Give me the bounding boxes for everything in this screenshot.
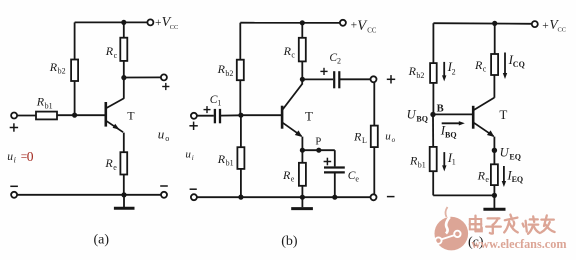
label Re (b) xyxy=(282,168,295,184)
wire: RL to bottom terminal (b) xyxy=(373,147,375,194)
label caption (c) xyxy=(468,235,484,250)
transistor T (c) xyxy=(473,98,494,137)
label T (a) xyxy=(127,109,135,123)
label P (b) xyxy=(315,137,321,148)
svg-text:b2: b2 xyxy=(225,69,233,78)
wire: Rb1 to transistor base (a) xyxy=(57,114,105,116)
wire: Rb2 branch upper (a) xyxy=(74,22,76,59)
label - at bottom-left terminal (a) xyxy=(10,185,18,187)
svg-text:e: e xyxy=(355,174,359,183)
label caption (a) xyxy=(94,232,110,247)
svg-text:R: R xyxy=(408,64,417,78)
label Rb1 (b) xyxy=(217,152,234,168)
wire: C2 to output terminal (b) xyxy=(339,78,370,80)
label - at bottom-right terminal (a) xyxy=(160,185,168,187)
label uo (b) xyxy=(385,131,395,144)
node P (b) xyxy=(316,148,321,153)
node: +Vcc terminal (c) xyxy=(532,21,538,27)
svg-text:b2: b2 xyxy=(416,71,424,80)
current arrow I2 (c) xyxy=(442,62,446,82)
svg-text:u: u xyxy=(385,131,391,143)
current arrow IEQ (c) xyxy=(502,166,506,187)
label B (c) xyxy=(437,103,444,114)
svg-text:www.elecfans.com: www.elecfans.com xyxy=(472,237,567,251)
watermark logo elecfans xyxy=(435,207,469,250)
svg-text:(a): (a) xyxy=(94,232,110,247)
svg-text:1: 1 xyxy=(217,98,221,107)
transistor T (b) xyxy=(282,84,302,137)
svg-text:+: + xyxy=(155,17,162,29)
label Rc (a) xyxy=(105,44,118,60)
resistor Re (b) xyxy=(299,150,306,197)
resistor Rb1 (b) xyxy=(237,147,244,169)
wire: top rail (c) xyxy=(433,22,532,25)
svg-text:u: u xyxy=(185,149,191,161)
wire: circuit (a) top rail xyxy=(75,21,148,23)
label ui = 0 (a) xyxy=(7,149,34,164)
svg-text:+: + xyxy=(542,20,549,32)
node: output terminal top (a) xyxy=(161,74,167,80)
junction: Rb1 rail node (b) xyxy=(238,195,243,200)
svg-text:b2: b2 xyxy=(58,67,66,76)
junction: top rail to Rc (a) xyxy=(121,20,126,25)
svg-text:e: e xyxy=(113,163,117,172)
wire: left branch upper (c) xyxy=(432,23,434,63)
wire: top rail (b) xyxy=(240,22,340,24)
wire: base node up to Rb2 (b) xyxy=(239,80,241,115)
junction: top rail to Rc (b) xyxy=(300,20,305,25)
wire: Ce down to rail (b) xyxy=(334,172,336,197)
wire: Rb2 to base node (a) xyxy=(74,81,76,115)
svg-text:R: R xyxy=(49,60,58,74)
label + at output (a) xyxy=(162,83,169,90)
svg-text:EQ: EQ xyxy=(512,175,524,184)
wire: C1 to base node (b) xyxy=(220,114,241,116)
junction: base node B (c) xyxy=(430,112,435,117)
wire: base node to transistor base (b) xyxy=(241,114,281,116)
svg-text:i: i xyxy=(14,155,16,164)
label RL (b) xyxy=(353,129,367,145)
node: input terminal (a) xyxy=(11,113,17,119)
svg-text:R: R xyxy=(217,152,226,166)
label Ce (b) xyxy=(348,170,360,184)
resistor RL (b) xyxy=(371,126,378,148)
current arrow I1 (c) xyxy=(442,152,446,171)
label + polarity at input (a) xyxy=(10,123,18,131)
watermark char dian xyxy=(470,216,482,232)
svg-text:R: R xyxy=(105,44,114,58)
svg-text:+: + xyxy=(351,20,358,32)
svg-text:T: T xyxy=(305,108,313,123)
label IBQ (c) xyxy=(440,123,457,140)
junction: collector node (a) xyxy=(121,75,126,80)
resistor Rb2 (a) xyxy=(71,60,78,82)
wire: input terminal to Rb1 (a) xyxy=(17,115,36,117)
label ui (b) xyxy=(185,149,193,162)
svg-text:2: 2 xyxy=(452,67,456,76)
resistor Rb1 (c) xyxy=(430,147,437,171)
resistor Rc (a) xyxy=(120,22,127,77)
label C1 (b) xyxy=(210,94,222,108)
svg-text:R: R xyxy=(477,168,486,182)
label Rb2 (a) xyxy=(49,60,66,76)
label - at output bottom (b) xyxy=(387,196,395,198)
wire: emitter down (a) xyxy=(123,133,125,153)
resistor Rb2 (c) xyxy=(430,63,437,83)
watermark char you xyxy=(541,215,554,232)
label Rb2 (c) xyxy=(408,64,425,80)
node: +Vcc terminal (a) xyxy=(147,19,153,25)
svg-text:e: e xyxy=(485,175,489,184)
transistor T (a) xyxy=(106,98,124,132)
svg-text:(b): (b) xyxy=(281,234,298,249)
node: bottom-right terminal (a) xyxy=(161,192,167,198)
svg-text:T: T xyxy=(127,109,135,123)
wire: bottom rail (c) xyxy=(433,194,494,196)
svg-text:R: R xyxy=(474,58,483,72)
label + below input terminal (b) xyxy=(189,122,197,130)
svg-text:c: c xyxy=(114,51,118,60)
label IEQ (c) xyxy=(506,167,523,184)
node: input terminal (b) xyxy=(191,113,197,119)
label + polarity of Ce (b) xyxy=(324,158,332,166)
resistor Re (a) xyxy=(120,152,127,195)
wire: bottom rail (b) xyxy=(197,196,371,198)
wire: Rb2 down to base node (c) xyxy=(432,83,434,115)
label Rb1 (c) xyxy=(409,154,426,170)
wire: collector node to output terminal (a) xyxy=(124,76,161,78)
svg-text:R: R xyxy=(282,168,291,182)
current arrow ICQ (c) xyxy=(503,53,507,80)
wire: collector up (a) xyxy=(123,78,125,99)
label T (c) xyxy=(499,107,507,122)
wire: Rb2 up to top rail (b) xyxy=(239,23,241,60)
node: output terminal bottom (b) xyxy=(371,194,377,200)
wire: corner down to Ce (b) xyxy=(334,150,336,166)
label I2 (c) xyxy=(447,59,456,76)
label uo (a) xyxy=(158,127,169,144)
resistor Rb1 (a) xyxy=(36,112,57,120)
label T (b) xyxy=(305,108,313,123)
label +Vcc (a) xyxy=(155,15,178,31)
ground (a) xyxy=(114,195,135,208)
label - at input bottom (b) xyxy=(190,188,197,190)
svg-text:BQ: BQ xyxy=(445,130,457,139)
resistor Rc (b) xyxy=(299,23,306,80)
junction: emitter node (c) xyxy=(492,148,497,153)
svg-text:P: P xyxy=(315,137,321,148)
label Rc (b) xyxy=(283,44,296,60)
wire: bottom rail (a) xyxy=(17,194,161,196)
wire: collector up (c) xyxy=(493,75,495,98)
svg-text:L: L xyxy=(362,136,367,145)
svg-text:R: R xyxy=(353,129,362,143)
label Rb2 (b) xyxy=(217,62,234,78)
capacitor C2 (b) xyxy=(334,71,339,88)
label Re (a) xyxy=(104,156,117,172)
svg-text:i: i xyxy=(192,154,194,162)
svg-text:CC: CC xyxy=(367,28,377,35)
svg-text:R: R xyxy=(283,44,292,58)
wire: emitter node to Ce corner (b) xyxy=(302,149,334,151)
svg-text:EQ: EQ xyxy=(509,153,521,162)
label + polarity of C1 (b) xyxy=(204,106,211,113)
wire: rail up to Rb1 (c) xyxy=(432,171,434,195)
wire: base node to transistor base (c) xyxy=(433,113,472,115)
svg-text:o: o xyxy=(392,136,396,144)
junction: Ce rail node (b) xyxy=(332,195,337,200)
wire: base node down to Rb1 (b) xyxy=(240,115,242,147)
svg-text:e: e xyxy=(291,175,295,184)
junction: Re rail node (b) xyxy=(300,195,305,200)
svg-text:u: u xyxy=(7,151,13,163)
capacitor C1 (b) xyxy=(215,109,220,123)
wire: Rb1 down to rail (b) xyxy=(240,169,242,197)
svg-text:BQ: BQ xyxy=(416,115,428,124)
label UBQ (c) xyxy=(407,107,428,123)
wire: input terminal to C1 (b) xyxy=(197,115,214,117)
svg-text:CC: CC xyxy=(170,24,179,31)
svg-text:1: 1 xyxy=(452,158,456,167)
watermark char fa xyxy=(504,215,518,233)
svg-text:CC: CC xyxy=(558,27,567,34)
current arrow IBQ (c) xyxy=(442,121,465,125)
junction: ground node (a) xyxy=(121,192,126,197)
label + at output (b) xyxy=(387,75,395,83)
svg-text:o: o xyxy=(165,134,169,143)
label C2 (b) xyxy=(329,52,341,66)
wire: output to RL (b) xyxy=(373,82,375,125)
label Re (c) xyxy=(477,168,490,184)
svg-text:b1: b1 xyxy=(226,159,234,168)
wire: collector diag to node (b) xyxy=(301,79,303,84)
junction: Re rail node (c) xyxy=(492,193,497,198)
resistor Rb2 (b) xyxy=(237,60,244,80)
watermark text www.elecfans.com xyxy=(472,237,567,251)
resistor Rc (c) xyxy=(491,23,498,75)
svg-text:b1: b1 xyxy=(418,160,426,169)
svg-text:B: B xyxy=(437,103,444,114)
watermark char zi xyxy=(486,218,501,233)
wire: Rb1 up to base node (c) xyxy=(432,115,434,147)
label +Vcc (c) xyxy=(542,17,566,34)
label Rb1 (a) xyxy=(36,95,53,111)
svg-text:0: 0 xyxy=(27,149,34,164)
svg-text:R: R xyxy=(36,95,45,109)
junction: top rail to Rc (c) xyxy=(492,21,497,26)
svg-text:CQ: CQ xyxy=(513,60,525,69)
label +Vcc (b) xyxy=(351,18,377,35)
node: +Vcc terminal (b) xyxy=(340,20,346,26)
svg-text:c: c xyxy=(291,51,295,60)
svg-text:R: R xyxy=(217,62,226,76)
label UEQ (c) xyxy=(500,146,521,162)
svg-text:c: c xyxy=(483,65,487,74)
label ICQ (c) xyxy=(508,52,525,69)
node: output terminal top (b) xyxy=(371,76,377,82)
label Rc (c) xyxy=(474,58,487,74)
svg-text:U: U xyxy=(500,146,510,160)
watermark char shao xyxy=(523,216,540,233)
label I1 (c) xyxy=(447,150,456,167)
svg-text:R: R xyxy=(104,156,113,170)
junction: base node (a) xyxy=(72,113,77,118)
wire: emitter down (c) xyxy=(493,137,495,151)
label caption (b) xyxy=(281,234,298,249)
svg-text:U: U xyxy=(407,107,417,121)
svg-text:2: 2 xyxy=(337,56,341,65)
junction: emitter node (b) xyxy=(300,148,305,153)
label + polarity of C2 (b) xyxy=(320,68,327,75)
svg-text:R: R xyxy=(409,154,418,168)
node: input bottom terminal (b) xyxy=(191,194,197,200)
wire: collector node to C2 (b) xyxy=(302,78,333,80)
svg-text:u: u xyxy=(158,127,165,142)
ground (b) xyxy=(291,197,313,208)
node: bottom-left terminal (a) xyxy=(11,192,17,198)
resistor Re (c) xyxy=(491,150,498,195)
wire: emitter down to node (b) xyxy=(301,137,303,151)
ground (c) xyxy=(483,195,505,209)
capacitor Ce (b) xyxy=(324,168,345,173)
junction: collector node (b) xyxy=(300,77,305,82)
svg-text:T: T xyxy=(499,107,507,122)
svg-text:b1: b1 xyxy=(45,101,53,110)
junction: base node (b) xyxy=(238,113,243,118)
